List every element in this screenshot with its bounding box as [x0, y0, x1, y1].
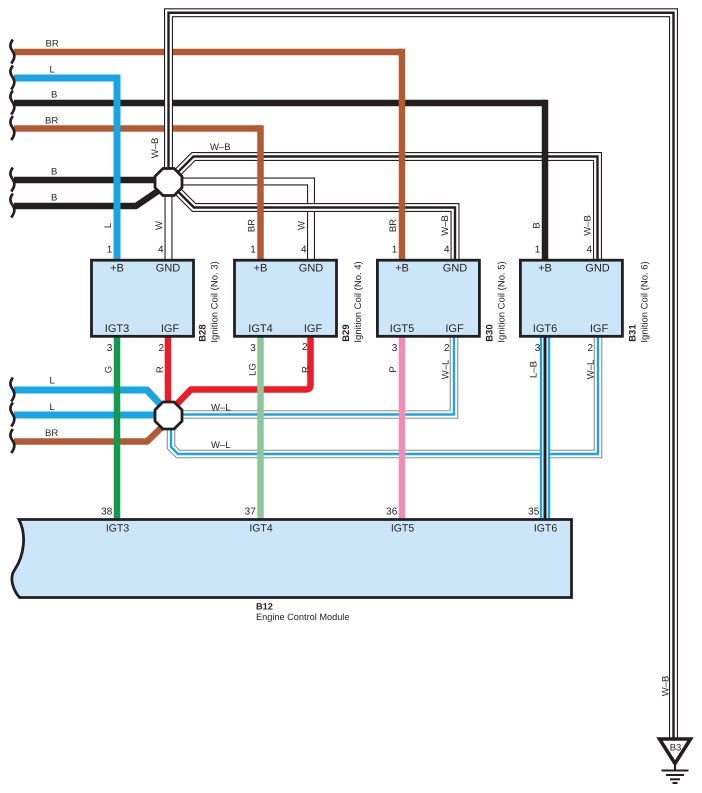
label W-B horizontal (to B31 GND) [210, 142, 231, 153]
label W-L (B30 IGF wire) [441, 360, 452, 380]
B31 terminal names [533, 263, 610, 336]
svg-text:L: L [50, 402, 55, 413]
break symbol (BR feed 2) [10, 116, 14, 140]
svg-text:IGT4: IGT4 [249, 523, 272, 535]
label W-B (B30 GND drop) [440, 215, 451, 236]
svg-text:W–B: W–B [440, 215, 451, 236]
svg-text:3: 3 [107, 343, 113, 354]
wire LG (B29 IGT4 pin 3 to ECM pin 37) [257, 335, 264, 522]
svg-text:W–L: W–L [211, 403, 231, 414]
svg-text:GND: GND [299, 263, 324, 275]
svg-text:W–L: W–L [586, 360, 597, 380]
wire B (vertical drop to B31 +B pin 1) [542, 100, 549, 263]
ignition coil B28 box [92, 260, 194, 336]
svg-text:2: 2 [158, 343, 164, 354]
break symbol (B ground 1) [10, 168, 14, 192]
svg-text:R: R [301, 366, 312, 373]
svg-text:G: G [104, 366, 115, 373]
wire W-B (junction J1 to B31 GND pin 4) [175, 157, 598, 264]
B31 name [639, 261, 650, 342]
svg-text:4: 4 [158, 245, 164, 256]
break symbol (L feed) [10, 66, 14, 90]
label W-L horizontal (to B31 IGF) [211, 440, 231, 451]
label R (B28 IGF wire) [155, 366, 166, 373]
svg-text:IGT3: IGT3 [106, 523, 129, 535]
B29 name [353, 261, 364, 342]
pin 4 B31 [586, 245, 592, 256]
pin 2 B29 [302, 342, 308, 353]
pin 4 B30 [444, 245, 450, 256]
ignition coil B30 box [377, 260, 479, 336]
pin 3 B29 [250, 343, 256, 354]
svg-text:3: 3 [392, 343, 398, 354]
B29 designator [341, 324, 352, 341]
svg-text:Ignition Coil (No. 5): Ignition Coil (No. 5) [496, 261, 507, 342]
svg-text:BR: BR [45, 116, 58, 127]
svg-text:2: 2 [444, 343, 450, 354]
ECM IGT6 name [534, 523, 557, 535]
junction J1 (ground splice octagon) [155, 169, 182, 196]
svg-text:B3: B3 [670, 743, 682, 754]
svg-text:W–B: W–B [150, 138, 161, 159]
B28 designator [197, 324, 208, 341]
label B (B31 +B drop) [532, 222, 543, 228]
svg-text:Ignition Coil (No. 3): Ignition Coil (No. 3) [209, 261, 220, 342]
wire R (junction J2 to B28 IGF pin 2) [165, 335, 172, 407]
ignition coil B29 box [235, 260, 337, 336]
B31 designator [627, 324, 638, 342]
label W-L (B31 IGF wire) [586, 360, 597, 380]
break symbol (BR feed) [10, 40, 14, 64]
wire W-B (junction J1 up, across top, down right side to ground B3) [169, 13, 674, 738]
ECM pin 35 [528, 507, 540, 518]
svg-text:W–B: W–B [661, 676, 672, 697]
svg-text:B: B [532, 222, 543, 228]
label G (IGT3 wire) [104, 366, 115, 373]
svg-text:L: L [50, 376, 55, 387]
ECM IGT4 name [249, 523, 272, 535]
svg-text:IGT6: IGT6 [533, 323, 557, 335]
svg-text:IGF: IGF [590, 323, 609, 335]
svg-text:IGT3: IGT3 [105, 323, 129, 335]
svg-text:Engine Control Module: Engine Control Module [256, 612, 349, 622]
ECM IGT3 name [106, 523, 129, 535]
svg-text:W–B: W–B [583, 215, 594, 236]
svg-text:3: 3 [250, 343, 256, 354]
svg-text:L–B: L–B [529, 361, 540, 378]
svg-text:LG: LG [248, 363, 259, 376]
svg-text:P: P [388, 366, 399, 372]
svg-text:W: W [297, 221, 308, 230]
wire BR (IGF into junction J2, lower diagonal) [14, 428, 161, 442]
break symbol (L IGF 2) [10, 403, 14, 427]
junction J2 (IGF splice octagon) [155, 402, 182, 429]
svg-text:2: 2 [587, 343, 593, 354]
pin 2 B30 [444, 343, 450, 354]
wire BR (vertical drop to B29 +B pin 1) [257, 125, 264, 263]
svg-text:1: 1 [535, 245, 541, 256]
wire L (IGF into junction J2, middle) [14, 412, 158, 419]
wire BR (vertical drop to B30 +B pin 1) [399, 49, 406, 263]
label LG (IGT4 wire) [248, 363, 259, 376]
svg-text:W: W [154, 221, 165, 230]
ignition coil B31 box [520, 260, 622, 336]
pin 3 B28 [107, 343, 113, 354]
label L-B (IGT6 wire) [529, 361, 540, 378]
pin 4 B28 [158, 245, 164, 256]
svg-text:36: 36 [386, 507, 398, 518]
svg-text:IGT5: IGT5 [391, 523, 414, 535]
svg-text:IGT6: IGT6 [534, 523, 557, 535]
pin 2 B31 [587, 343, 593, 354]
svg-text:W–L: W–L [211, 440, 231, 451]
ECM designator B12 [256, 602, 273, 612]
ECM IGT5 name [391, 523, 414, 535]
label R (B29 IGF wire) [301, 366, 312, 373]
label P (IGT5 wire) [388, 366, 399, 372]
svg-text:IGF: IGF [445, 323, 464, 335]
ground B3 (triangle + earth) [660, 739, 691, 783]
B28 name [209, 261, 220, 342]
svg-text:35: 35 [528, 507, 540, 518]
svg-text:BR: BR [388, 219, 399, 232]
svg-text:4: 4 [301, 245, 307, 256]
svg-text:1: 1 [392, 245, 398, 256]
svg-text:B: B [51, 90, 57, 101]
svg-text:B30: B30 [484, 324, 495, 341]
wire BR (feed to B29 +B, horizontal run) [14, 125, 261, 132]
svg-text:IGF: IGF [304, 323, 323, 335]
svg-text:38: 38 [101, 507, 113, 518]
svg-text:IGF: IGF [161, 323, 180, 335]
break symbol (B ground 2) [10, 194, 14, 218]
svg-text:W–B: W–B [210, 142, 231, 153]
wire P (B30 IGT5 pin 3 to ECM pin 36) [399, 335, 406, 522]
svg-text:+B: +B [538, 263, 552, 275]
label W-B vertical (right side to ground) [661, 676, 672, 697]
svg-text:B29: B29 [341, 324, 352, 341]
label W-L horizontal (to B30 IGF) [211, 403, 231, 414]
wire G (B28 IGT3 pin 3 to ECM pin 38) [114, 335, 121, 522]
wire L (feed to B28 +B) [14, 78, 117, 263]
label W (B29 GND drop) [297, 221, 308, 230]
svg-text:4: 4 [444, 245, 450, 256]
label BR IGF [45, 428, 58, 439]
pin 1 B29 [250, 245, 256, 256]
svg-text:4: 4 [586, 245, 592, 256]
label W-B (B31 GND drop) [583, 215, 594, 236]
B29 terminal names [248, 263, 323, 336]
svg-text:GND: GND [585, 263, 610, 275]
label W (B28 GND drop) [154, 221, 165, 230]
svg-text:BR: BR [45, 428, 58, 439]
svg-text:B12: B12 [256, 602, 273, 612]
break symbol (BR IGF) [10, 429, 14, 453]
svg-text:B31: B31 [627, 324, 638, 342]
label L (B28 +B drop) [103, 223, 114, 228]
wire W-L (junction J2 to B30 IGF pin 2) [179, 335, 454, 415]
svg-text:1: 1 [250, 245, 256, 256]
B28 terminal names [105, 263, 181, 336]
svg-text:R: R [155, 366, 166, 373]
B30 terminal names [390, 263, 468, 336]
wire B (ground into junction J1, upper) [14, 177, 158, 184]
svg-text:2: 2 [302, 342, 308, 353]
label B ground 1 [51, 167, 57, 178]
pin 1 B28 [107, 245, 113, 256]
B30 designator [484, 324, 495, 341]
break symbol (L IGF 1) [10, 378, 14, 402]
ECM pin 38 [101, 507, 113, 518]
svg-text:L: L [103, 223, 114, 228]
svg-text:Ignition Coil (No. 4): Ignition Coil (No. 4) [353, 261, 364, 342]
svg-text:+B: +B [395, 263, 409, 275]
label BR wire 1 [46, 39, 59, 50]
wire L-B (B31 IGT6 pin 3 to ECM pin 35) [544, 335, 546, 522]
label B ground 2 [51, 193, 57, 204]
svg-text:Ignition Coil (No. 6): Ignition Coil (No. 6) [639, 261, 650, 342]
label BR wire 2 [45, 116, 58, 127]
label L IGF 2 [50, 402, 55, 413]
label L IGF 1 [50, 376, 55, 387]
svg-text:3: 3 [535, 343, 541, 354]
B30 name [496, 261, 507, 342]
wire W (junction J1 to B28 GND pin 4) [168, 192, 170, 263]
svg-text:IGT4: IGT4 [248, 323, 272, 335]
svg-text:IGT5: IGT5 [390, 323, 414, 335]
svg-text:BR: BR [46, 39, 59, 50]
svg-text:37: 37 [245, 507, 257, 518]
svg-text:+B: +B [110, 263, 124, 275]
wire W-L (junction J2 to B31 IGF pin 2) [171, 335, 598, 455]
ECM name [256, 612, 349, 622]
ECM pin 37 [245, 507, 257, 518]
svg-text:W–L: W–L [441, 360, 452, 380]
pin 3 B31 [535, 343, 541, 354]
wire B (ground into junction J1, lower diagonal) [14, 191, 158, 206]
label BR (B30 +B drop) [388, 219, 399, 232]
wire B (feed to B31 +B, horizontal run) [14, 100, 545, 107]
wire W-B (junction J1 to B30 GND pin 4) [175, 189, 455, 264]
ECM B12 box [12, 520, 572, 598]
label W-B vertical (top left) [150, 138, 161, 159]
wire W (junction J1 to B29 GND pin 4) [179, 182, 311, 264]
label BR (B29 +B drop) [247, 219, 258, 232]
wire BR (battery feed to B30 +B, horizontal run) [14, 49, 402, 56]
svg-text:1: 1 [107, 245, 113, 256]
svg-text:BR: BR [247, 219, 258, 232]
label B wire [51, 90, 57, 101]
break symbol (B feed) [10, 91, 14, 115]
wire R (junction J2 to B29 IGF pin 2) [174, 335, 311, 408]
svg-text:GND: GND [443, 263, 468, 275]
pin 4 B29 [301, 245, 307, 256]
svg-text:+B: +B [254, 263, 268, 275]
label L wire [50, 65, 55, 76]
pin 2 B28 [158, 343, 164, 354]
svg-text:B: B [51, 167, 57, 178]
pin 3 B30 [392, 343, 398, 354]
svg-text:GND: GND [156, 263, 181, 275]
ECM pin 36 [386, 507, 398, 518]
svg-text:B: B [51, 193, 57, 204]
pin 1 B31 [535, 245, 541, 256]
wire L (IGF into junction J2, upper diagonal) [14, 390, 160, 404]
svg-text:B28: B28 [197, 324, 208, 341]
pin 1 B30 [392, 245, 398, 256]
svg-text:L: L [50, 65, 55, 76]
